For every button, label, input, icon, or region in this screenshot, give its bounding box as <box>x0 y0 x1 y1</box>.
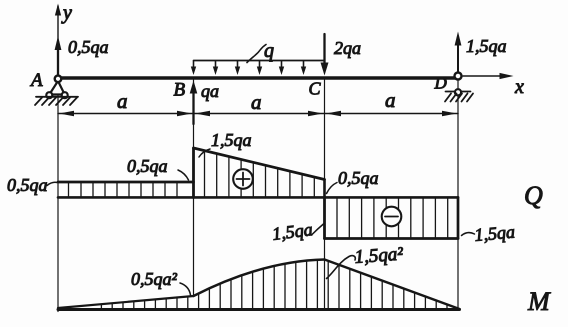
node D reference line <box>457 80 459 310</box>
x axis <box>463 73 524 98</box>
svg-text:0,5qa²: 0,5qa² <box>131 269 178 289</box>
Q plot: segment CD rectangle <box>325 197 459 238</box>
node C reference line <box>324 80 326 310</box>
svg-text:0,5qa: 0,5qa <box>7 175 48 195</box>
svg-text:A: A <box>29 70 43 91</box>
M diagram title <box>527 287 551 316</box>
svg-text:qa: qa <box>201 81 219 101</box>
beam AD <box>56 76 460 79</box>
svg-text:1,5qa: 1,5qa <box>211 130 252 150</box>
svg-text:D: D <box>434 74 448 93</box>
minus sign circle <box>382 207 402 227</box>
Q plot: segment BC trapezoid <box>194 148 325 197</box>
M plot baseline <box>58 308 460 311</box>
Q label 0.5qa at B <box>127 156 189 180</box>
Q label 1.5qa at C <box>271 219 324 244</box>
M label 1.5qa2 <box>327 244 404 279</box>
svg-text:x: x <box>514 76 524 98</box>
Q label 1.5qa at D <box>462 222 516 245</box>
svg-text:a: a <box>117 89 128 113</box>
M plot curve <box>58 260 460 310</box>
svg-text:C: C <box>309 79 322 99</box>
support A (pin) <box>29 70 78 105</box>
svg-text:0,5qa: 0,5qa <box>68 37 109 57</box>
svg-text:q: q <box>264 40 274 62</box>
svg-text:1,5qa²: 1,5qa² <box>354 244 404 268</box>
support D (roller) <box>434 73 474 102</box>
force 1.5qa at D <box>455 32 507 73</box>
Q label 0.5qa at C <box>327 168 379 194</box>
node B reference line <box>193 80 195 296</box>
force 2qa at C <box>309 34 362 99</box>
svg-text:0,5qa: 0,5qa <box>338 168 379 188</box>
svg-text:0,5qa: 0,5qa <box>127 156 168 176</box>
M label 0.5qa2 <box>131 269 191 295</box>
plus sign circle <box>233 169 253 189</box>
svg-text:1,5qa: 1,5qa <box>474 222 516 245</box>
svg-text:B: B <box>174 80 186 101</box>
force 0.5qa at A <box>55 36 109 74</box>
Q label 0.5qa left <box>7 175 57 195</box>
svg-text:1,5qa: 1,5qa <box>271 219 314 244</box>
dimension line a-a-a <box>58 88 458 116</box>
distributed load q on BC <box>191 40 325 75</box>
Q plot: segment AB rectangle <box>58 182 194 196</box>
svg-text:Q: Q <box>524 181 543 210</box>
Q diagram title <box>524 181 543 210</box>
y axis <box>55 2 72 76</box>
Q label 1.5qa at B <box>199 130 252 157</box>
force qa at B <box>174 80 220 125</box>
svg-text:M: M <box>527 287 551 316</box>
svg-text:a: a <box>385 88 396 112</box>
svg-text:2qa: 2qa <box>334 38 361 58</box>
node A reference line <box>57 96 59 312</box>
svg-text:1,5qa: 1,5qa <box>466 36 507 56</box>
svg-text:y: y <box>61 2 72 24</box>
svg-text:a: a <box>251 90 262 114</box>
Q plot: baseline A to D <box>58 196 458 199</box>
